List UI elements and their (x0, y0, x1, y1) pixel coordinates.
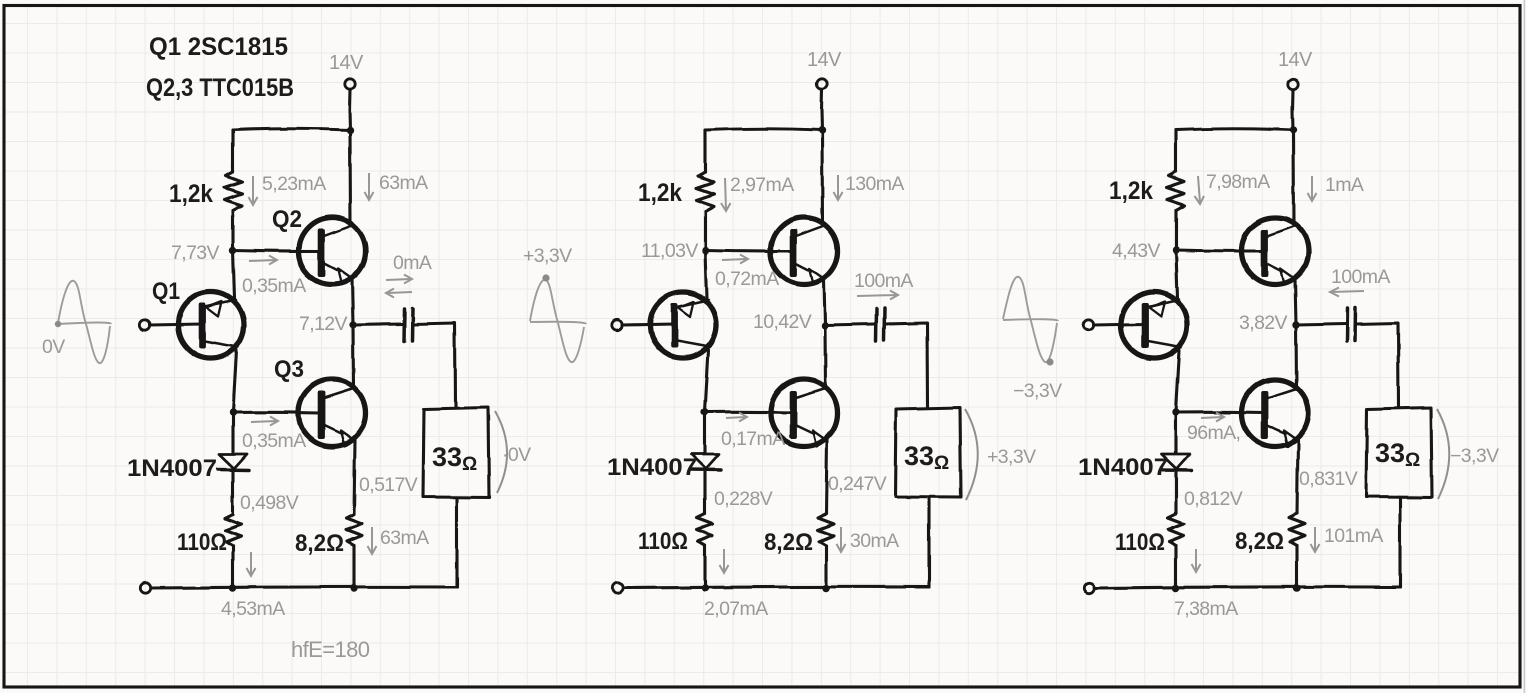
current arrow 4.53mA (247, 552, 256, 576)
svg-text:0,72mA: 0,72mA (715, 268, 779, 290)
svg-text:1N4007: 1N4007 (607, 454, 697, 481)
svg-text:Q3: Q3 (274, 356, 304, 383)
svg-text:0,812V: 0,812V (1184, 488, 1243, 510)
input waveform dot 1 (55, 321, 61, 327)
current arrow 63mA bottom (368, 527, 377, 554)
svg-text:0,17mA: 0,17mA (721, 428, 785, 450)
svg-text:2,07mA: 2,07mA (704, 598, 768, 620)
svg-text:30mA: 30mA (850, 530, 899, 552)
svg-text:63mA: 63mA (379, 172, 428, 194)
svg-text:1N4007: 1N4007 (1078, 454, 1168, 481)
svg-text:7,38mA: 7,38mA (1174, 598, 1238, 620)
input waveform sine 3 (1003, 277, 1058, 362)
current arrow 100mA left (1330, 288, 1364, 297)
svg-text:100mA: 100mA (854, 270, 913, 292)
current arrow 0.35mA lower (251, 417, 278, 426)
svg-text:2,97mA: 2,97mA (730, 174, 794, 196)
current arrow 63mA top (365, 173, 374, 200)
input waveform dot 2 (542, 274, 549, 281)
svg-text:Q1 2SC1815: Q1 2SC1815 (149, 33, 288, 61)
svg-text:−3,3V: −3,3V (1450, 445, 1499, 467)
svg-text:4,43V: 4,43V (1112, 240, 1161, 262)
amplifier circuit 2 geometry (612, 79, 961, 593)
current arrow 130mA (834, 175, 843, 200)
amplifier circuit 3 geometry (1083, 79, 1432, 593)
svg-text:8,2Ω: 8,2Ω (764, 529, 813, 556)
current arrow 0.17mA (726, 413, 747, 422)
current arrow 2.97mA (721, 178, 731, 211)
svg-text:63mA: 63mA (380, 527, 429, 549)
circuit 2 labels (523, 49, 1036, 620)
svg-text:110Ω: 110Ω (638, 528, 688, 555)
current arrow 0.72mA (722, 255, 748, 264)
svg-text:1N4007: 1N4007 (127, 455, 217, 482)
svg-text:100mA: 100mA (1331, 266, 1390, 288)
output brace arc (495, 411, 507, 493)
svg-text:110Ω: 110Ω (177, 529, 227, 556)
svg-text:110Ω: 110Ω (1115, 529, 1165, 556)
svg-text:1,2k: 1,2k (1109, 177, 1153, 205)
svg-text:0,517V: 0,517V (359, 474, 418, 496)
svg-text:7,12V: 7,12V (299, 313, 348, 335)
svg-text:1mA: 1mA (1325, 174, 1364, 196)
svg-text:−3,3V: −3,3V (1013, 380, 1062, 402)
svg-text:1,2k: 1,2k (169, 180, 213, 208)
amplifier circuit 1 geometry (140, 79, 489, 593)
svg-text:Q1: Q1 (152, 278, 180, 305)
current arrow 7.98mA (1195, 176, 1205, 204)
svg-text:130mA: 130mA (845, 173, 904, 195)
svg-text:7,73V: 7,73V (171, 242, 220, 264)
input waveform dot 3 (1046, 358, 1053, 365)
circuit 1 labels (42, 33, 531, 662)
current arrow 30mA (837, 527, 846, 552)
svg-text:11,03V: 11,03V (641, 240, 698, 262)
current arrow 1mA (1308, 176, 1317, 201)
svg-text:1,2k: 1,2k (638, 179, 682, 207)
output brace arc (1437, 409, 1449, 499)
svg-text:0,228V: 0,228V (714, 488, 773, 510)
circuit 3 labels (1003, 49, 1499, 620)
svg-text:hfE=180: hfE=180 (291, 637, 370, 662)
svg-text:+3,3V: +3,3V (523, 245, 572, 267)
scan edge sliver (1524, 0, 1526, 693)
svg-text:0,831V: 0,831V (1299, 468, 1358, 490)
svg-text:+3,3V: +3,3V (987, 446, 1036, 468)
svg-text:0,35mA: 0,35mA (242, 275, 306, 297)
svg-text:101mA: 101mA (1324, 525, 1383, 547)
current arrow 7.38mA (1192, 549, 1201, 572)
input waveform sine 2 (530, 280, 586, 362)
svg-text:14V: 14V (329, 52, 364, 74)
svg-text:7,98mA: 7,98mA (1206, 171, 1270, 193)
svg-text:14V: 14V (807, 49, 842, 71)
svg-text:0mA: 0mA (393, 252, 432, 274)
svg-text:0V: 0V (42, 336, 65, 358)
current arrow 2.07mA (720, 549, 729, 573)
svg-text:0,247V: 0,247V (828, 473, 887, 495)
svg-text:4,53mA: 4,53mA (221, 598, 285, 620)
svg-text:0,498V: 0,498V (240, 492, 299, 514)
svg-text:8,2Ω: 8,2Ω (295, 530, 344, 557)
svg-text:96mA,: 96mA, (1187, 422, 1240, 444)
svg-text:0,35mA: 0,35mA (242, 430, 306, 452)
current arrow 5.23mA (249, 176, 258, 205)
svg-text:5,23mA: 5,23mA (262, 173, 326, 195)
svg-text:Q2: Q2 (272, 206, 302, 233)
svg-text:14V: 14V (1278, 49, 1313, 71)
double arrow 0mA (386, 275, 412, 298)
svg-text:8,2Ω: 8,2Ω (1235, 528, 1284, 555)
input waveform sine 1 (58, 281, 111, 363)
current arrow 101mA (1311, 527, 1320, 552)
svg-text:Q2,3 TTC015B: Q2,3 TTC015B (146, 74, 294, 102)
current arrow 100mA right (857, 291, 898, 300)
svg-text:10,42V: 10,42V (753, 311, 812, 333)
output brace arc (965, 409, 978, 500)
svg-text:3,82V: 3,82V (1239, 312, 1288, 334)
current arrow 96mA (1201, 413, 1224, 422)
current arrow 0.35mA upper (249, 256, 277, 265)
